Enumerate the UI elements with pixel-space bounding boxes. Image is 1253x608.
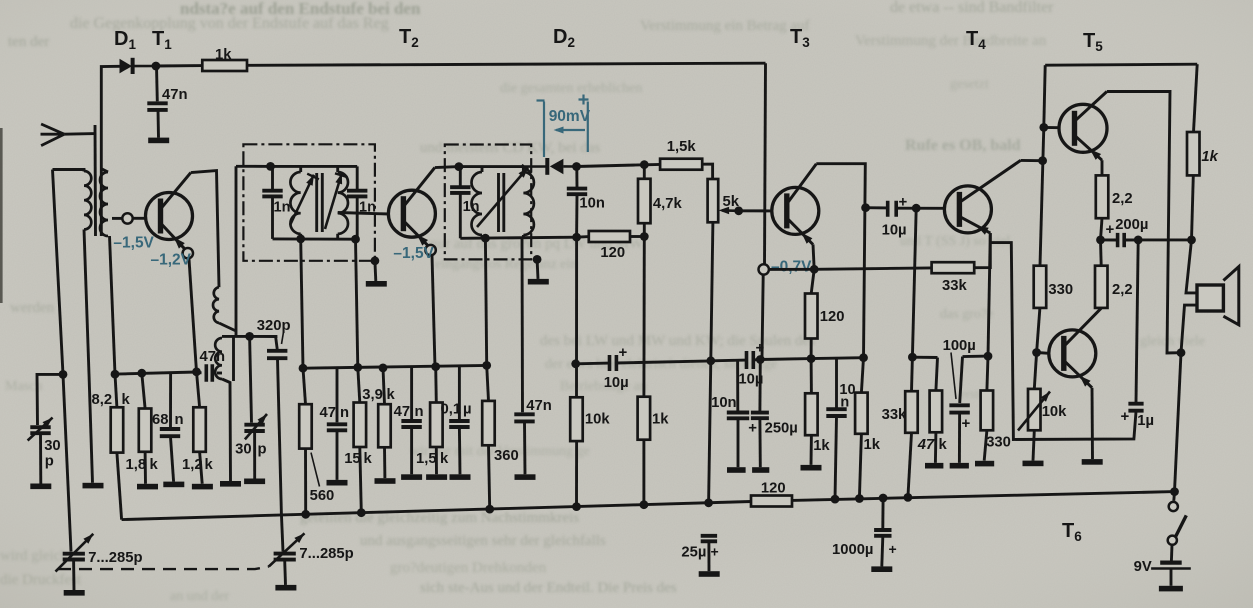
svg-text:k: k: [122, 392, 131, 408]
inductor oscillator secondary: [215, 338, 222, 379]
svg-text:gro?deutigen Drehkonden: gro?deutigen Drehkonden: [390, 560, 547, 576]
svg-text:n: n: [340, 405, 349, 421]
svg-text:n: n: [840, 395, 849, 411]
wire box1 top rail: [271, 165, 358, 168]
svg-text:das gro?e: das gro?e: [940, 307, 993, 322]
capacitor 10u coupling-2: [747, 351, 754, 369]
resistor 4.7k: [638, 179, 651, 223]
svg-text:25µ: 25µ: [681, 545, 706, 561]
wire IF2 primary bottom: [481, 235, 484, 238]
node speaker/1k: [1187, 236, 1196, 245]
svg-text:8,2: 8,2: [92, 392, 113, 408]
resistor 1.2k: [193, 407, 206, 452]
wire 120 T3 lead: [811, 269, 814, 293]
node box2 input: [455, 162, 464, 171]
svg-text:2,2: 2,2: [1112, 191, 1133, 207]
node speaker bottom: [1177, 348, 1186, 357]
label 320p: [257, 318, 291, 334]
svg-text:30: 30: [44, 438, 60, 454]
wire 47n-c branch: [410, 368, 413, 420]
node 5k wiper: [734, 206, 743, 215]
wire 15k lead: [358, 367, 360, 402]
svg-text:wird gleich: wird gleich: [0, 548, 68, 564]
label 47n det: [526, 398, 552, 414]
wire 8.2k to bottom rail corner: [117, 453, 122, 520]
svg-text:gleich viele: gleich viele: [1140, 334, 1205, 349]
node T3 emitter: [810, 265, 819, 274]
wire bias node row: [115, 372, 197, 374]
wire antenna to rod: [64, 132, 95, 135]
label 560: [310, 488, 335, 504]
wire 33k to T4 emitter: [974, 233, 990, 268]
svg-text:1,5k: 1,5k: [667, 139, 697, 155]
svg-text:k: k: [150, 457, 159, 473]
wire 4.7k bottom lead: [643, 223, 646, 236]
label 100u: [943, 338, 976, 354]
wire 10k pot lead: [1034, 353, 1036, 389]
wire 47n-d to ground: [523, 422, 526, 474]
label 30 (osc): [235, 442, 251, 458]
inductor antenna primary: [84, 171, 91, 230]
capacitor trimmer 30p antenna: [30, 427, 50, 433]
wire 10n-1 branch: [736, 360, 739, 411]
node T5 base: [1039, 123, 1048, 132]
node T1 emitter bias: [192, 367, 201, 376]
wire 320p down to tuning cap: [278, 359, 284, 552]
wire 1.5k lead: [434, 367, 437, 403]
ground 47k: [925, 463, 943, 469]
node 320p/30p: [245, 332, 254, 341]
label u (0.1u): [463, 402, 472, 418]
potentiometer 10k body: [1028, 389, 1041, 430]
label T6: [1062, 520, 1082, 544]
wire T4coll to 330-2: [1040, 127, 1044, 265]
resistor 1k T3: [805, 393, 818, 435]
label 120 T3: [820, 309, 845, 325]
capacitor 1u: [1128, 404, 1143, 411]
node 560 top: [299, 364, 308, 373]
wire 30p branch: [37, 374, 63, 425]
transistor T3: [772, 164, 819, 245]
capacitor 1n b: [347, 191, 367, 197]
label -0,7V: [771, 259, 812, 276]
svg-text:320p: 320p: [257, 318, 291, 334]
svg-text:1k: 1k: [1201, 149, 1218, 165]
node T4 base/33k: [912, 204, 921, 213]
svg-text:+: +: [889, 541, 897, 557]
label n b: [415, 404, 424, 420]
label 47n (osc): [200, 349, 226, 365]
svg-text:47: 47: [394, 404, 410, 420]
junction switch/rail: [1170, 487, 1179, 496]
page edge artifact: [0, 128, 3, 303]
arrow tuning cap 2: [269, 533, 305, 566]
svg-text:330: 330: [986, 435, 1011, 451]
svg-text:120: 120: [600, 245, 625, 261]
wire 30p to ground: [39, 435, 42, 484]
wire 47n osc left: [197, 371, 202, 374]
ground 25u: [699, 571, 720, 577]
ground 1000u: [871, 566, 892, 572]
label k (47k): [939, 437, 948, 453]
plus 10u-1: [619, 344, 628, 361]
svg-text:330: 330: [1048, 282, 1073, 298]
wire 100u link: [963, 355, 989, 358]
wire osc primary bottom hook: [219, 323, 236, 331]
slug arrow IF1 b: [325, 173, 347, 229]
bottom supply rail right: [792, 492, 1175, 501]
svg-text:90mV: 90mV: [549, 108, 591, 125]
svg-text:+: +: [1106, 221, 1115, 238]
ground 10k pot: [1023, 461, 1044, 467]
wire 10n-afc branch: [835, 358, 838, 408]
label 47 b: [394, 404, 410, 420]
label 1k audio: [652, 412, 669, 428]
svg-text:3,9: 3,9: [362, 387, 383, 403]
resistor 2.2 upper: [1096, 175, 1109, 218]
capacitor trimmer 30p osc: [244, 425, 264, 431]
junction IF1 tank left: [296, 235, 305, 244]
svg-text:1k: 1k: [864, 437, 881, 453]
wire AF row c: [711, 359, 747, 363]
junction 360/rail: [485, 505, 494, 514]
wire 2.2 lower top: [1099, 240, 1103, 266]
label 15: [344, 451, 360, 467]
ground 250u: [752, 467, 769, 473]
svg-text:de etwa -- sind Bandfilter: de etwa -- sind Bandfilter: [890, 0, 1054, 16]
capacitor 47n bias-b: [401, 421, 421, 427]
ground 1.8k: [137, 484, 158, 490]
ground 0.1u: [450, 474, 471, 480]
antenna: [41, 124, 65, 146]
wire T1 emitter down: [189, 259, 197, 372]
svg-text:4,7k: 4,7k: [653, 196, 683, 212]
wire 10k to rail: [575, 441, 578, 507]
wire 47n osc right: [217, 372, 222, 375]
plus 200u: [1106, 221, 1115, 238]
junction box1 shield ground: [371, 256, 380, 265]
wire osc secondary bottom: [222, 379, 231, 481]
wire 33k2 column: [912, 208, 916, 357]
label k (3.9k): [387, 387, 396, 403]
ground tuning cap 1: [64, 590, 85, 596]
svg-text:0,1: 0,1: [441, 402, 462, 418]
node 33k2/47k: [908, 353, 917, 362]
label -1,2V (T1): [151, 252, 192, 269]
wire 1.2k to ground: [200, 452, 203, 484]
label n af: [840, 395, 849, 411]
resistor 360: [482, 401, 495, 445]
wire 1.5k to ground: [435, 447, 438, 474]
wire 33k2 lead: [910, 357, 914, 391]
wire 68n branch: [169, 374, 172, 428]
wire 250u to ground: [758, 419, 761, 467]
node 1.5k top: [431, 362, 440, 371]
svg-text:360: 360: [494, 448, 519, 464]
resistor 120 T3: [805, 294, 818, 339]
wire 10n-1 to ground: [737, 419, 740, 467]
svg-text:und meistens CD KW, bei das: und meistens CD KW, bei das: [420, 140, 600, 156]
node 120/1k: [807, 354, 816, 363]
label 360: [494, 448, 519, 464]
label 2,2 lower: [1112, 282, 1133, 298]
wire 330-1 to ground: [984, 430, 987, 460]
junction D1/1k/47n: [152, 62, 161, 71]
ground T6 emitter: [1082, 459, 1103, 465]
wire 1k audio column: [642, 237, 645, 397]
resistor 1k AGC: [202, 60, 247, 71]
wire 33k2/47k link: [912, 356, 937, 359]
trimmer arrow 30p osc: [245, 414, 267, 439]
node T4 emitter low: [984, 352, 993, 361]
svg-text:1,8: 1,8: [126, 457, 147, 473]
wire 10u3 right to T4: [896, 207, 944, 210]
wire T5 base: [1044, 126, 1060, 129]
label 10u-3: [882, 223, 907, 239]
svg-text:47: 47: [320, 405, 336, 421]
wire 120 to 4.7k node: [630, 235, 644, 238]
wire tank2 to 360 node: [485, 238, 486, 365]
ground 47n det: [515, 474, 536, 480]
wire tuned frame left (slanted): [53, 170, 72, 552]
wire IF1 secondary top: [336, 166, 339, 172]
svg-text:47n: 47n: [526, 398, 552, 414]
svg-text:10µ: 10µ: [882, 223, 907, 239]
plus 1000u: [889, 541, 897, 557]
wire 1n-a bottom: [271, 198, 274, 239]
resistor 2.2 lower: [1095, 266, 1108, 308]
plus 1u: [1121, 408, 1130, 425]
wire 8.2k leads: [115, 374, 117, 407]
wire base circle to T1: [133, 217, 146, 220]
svg-text:+: +: [711, 544, 719, 560]
wire 47n-d branch: [521, 238, 524, 412]
svg-text:an und der: an und der: [170, 589, 229, 604]
label 33k bias: [882, 407, 907, 423]
wire box2 shield to ground: [536, 259, 540, 279]
pointer 560: [311, 453, 320, 487]
slug arrow IF2: [477, 165, 532, 227]
junction 1k2/rail: [855, 494, 864, 503]
label 10n ripple: [711, 395, 737, 411]
wire secondary tap to base circle: [112, 217, 122, 220]
svg-text:68: 68: [152, 412, 168, 428]
label 8,2: [92, 392, 113, 408]
label 1n a: [274, 200, 291, 216]
label 330 emitter: [986, 435, 1011, 451]
svg-text:47n: 47n: [162, 87, 188, 103]
svg-text:1k: 1k: [215, 47, 232, 63]
svg-text:n: n: [415, 404, 424, 420]
wire 47k lead: [936, 358, 938, 391]
wire 1k load top: [1194, 64, 1198, 132]
label k (8.2k): [122, 392, 131, 408]
wire speaker bottom lead: [1181, 305, 1197, 353]
wire 320p lead: [276, 337, 278, 350]
wire 1k2 to rail: [859, 434, 861, 499]
wire AGC rail down: [765, 63, 766, 264]
svg-text:k: k: [939, 437, 948, 453]
wire emitter row to 33k: [814, 268, 931, 269]
capacitor 10n det: [567, 189, 587, 195]
wire 1k load bottom: [1192, 175, 1194, 240]
svg-text:10k: 10k: [1042, 404, 1067, 420]
svg-text:1µ: 1µ: [1137, 413, 1154, 429]
svg-text:die Druckfest: die Druckfest: [0, 572, 82, 588]
node T6 base: [1032, 348, 1041, 357]
wire 330-2 to T6 base: [1037, 308, 1040, 353]
resistor 120 supply: [751, 496, 792, 507]
resistor 8.2k: [111, 407, 124, 452]
wire 15k to rail: [360, 447, 362, 513]
wiper arrow 5k: [719, 207, 739, 215]
svg-text:10n: 10n: [711, 395, 737, 411]
junction IF2 tank tap: [481, 234, 490, 243]
label 10u-2: [738, 372, 763, 388]
wire IF2 secondary top: [522, 167, 525, 172]
junction 1k/rail: [640, 500, 649, 509]
svg-text:p: p: [258, 442, 267, 458]
svg-text:1000µ: 1000µ: [832, 542, 873, 558]
svg-text:–1,2V: –1,2V: [151, 252, 192, 269]
wire det node to 1.5k: [577, 164, 661, 166]
wire 330-1 lead: [987, 356, 988, 390]
label 10u-1: [604, 375, 629, 391]
wire 1n-a leads: [271, 166, 274, 189]
node 15k top: [353, 363, 362, 372]
wire 33k2 to rail: [908, 433, 912, 498]
wire IF2 primary top: [481, 167, 484, 172]
label 1k coll: [864, 437, 881, 453]
inductor IF2 secondary: [523, 172, 534, 235]
node output upper: [1096, 236, 1105, 245]
wire 25u to ground: [707, 542, 710, 571]
svg-text:–0,7V: –0,7V: [771, 259, 812, 276]
diode D2: [523, 158, 576, 175]
svg-text:200µ: 200µ: [1115, 217, 1148, 233]
plus 10u-3: [899, 194, 908, 211]
node 5k/10u2: [706, 356, 715, 365]
resistor 10k volume: [570, 397, 583, 441]
resistor 3.9k: [378, 404, 391, 447]
capacitor 1n c: [450, 187, 470, 193]
svg-text:Verstimmung ein Betrag auf: Verstimmung ein Betrag auf: [640, 18, 810, 34]
wire AGC below testpoint: [760, 275, 763, 360]
wire 3.9k lead: [383, 368, 385, 404]
wire 47n-b to ground: [336, 432, 339, 480]
wire 1n-c leads: [459, 167, 462, 186]
capacitor 47n at D1: [147, 103, 167, 110]
svg-text:560: 560: [310, 488, 335, 504]
ground 1.2k: [192, 484, 213, 490]
wire IF1 primary bottom: [299, 234, 302, 239]
svg-text:ten der: ten der: [8, 34, 49, 50]
wire 5k bottom: [711, 222, 713, 360]
capacitor 47n oscillator: [206, 364, 212, 381]
wire antenna lead-in to D1 branch: [101, 66, 119, 236]
wire 10k pot to ground: [1033, 430, 1034, 460]
switch contact lower: [1168, 536, 1177, 545]
wire IF1 secondary bottom: [336, 234, 339, 239]
wire IF2 secondary bottom: [522, 235, 525, 238]
wire 3.9k to ground: [383, 447, 386, 478]
wire 10u3 left: [866, 206, 888, 209]
wire 4.7k top lead: [643, 165, 646, 179]
label 120 det: [600, 245, 625, 261]
core IF2 right: [502, 173, 505, 232]
svg-text:7...285p: 7...285p: [299, 546, 353, 562]
svg-text:1,2: 1,2: [182, 457, 203, 473]
svg-text:+: +: [1121, 408, 1130, 425]
label D2: [553, 26, 575, 50]
pointer 100u: [951, 353, 956, 400]
diode D1: [120, 58, 156, 74]
svg-text:33k: 33k: [882, 407, 907, 423]
wire AF row: [576, 362, 610, 366]
ground 30p osc: [244, 479, 265, 485]
node 4.7k top: [640, 160, 649, 169]
switch contact upper: [1169, 502, 1178, 511]
label 47 a: [320, 405, 336, 421]
wire 1n-b leads: [356, 166, 359, 189]
wire primary bottom to ground: [84, 230, 93, 483]
svg-text:+: +: [962, 415, 971, 432]
wire T2 collector to box2: [435, 167, 459, 168]
inductor IF2 primary: [472, 172, 483, 235]
ferrite rod bar: [94, 125, 97, 236]
wire 100u to ground: [958, 414, 961, 463]
label k (1.8k): [150, 457, 159, 473]
wire 47n to ground: [157, 110, 160, 138]
label 1k T3: [813, 438, 830, 454]
svg-text:werden: werden: [10, 300, 55, 316]
label 30: [44, 438, 60, 454]
label 33k fb: [942, 278, 967, 294]
label 330 driver: [1048, 282, 1073, 298]
svg-text:10n: 10n: [579, 196, 605, 212]
label T4: [966, 28, 986, 52]
svg-text:47n: 47n: [200, 349, 226, 365]
transistor T5: [1059, 92, 1107, 161]
node secondary/8.2k: [111, 370, 120, 379]
slug arrow IF1 a: [290, 174, 319, 225]
arrow tuning cap 1: [56, 534, 94, 572]
resistor 1k load: [1187, 132, 1200, 175]
wire 5k wiper to T3 base: [739, 209, 772, 212]
plus 250u: [748, 419, 757, 436]
battery 9V: [1151, 563, 1191, 569]
wire output top rail: [1045, 64, 1197, 65]
capacitor 10n ripple: [727, 413, 749, 419]
label 10 af: [839, 382, 855, 398]
wire 30p osc to ground: [253, 432, 256, 479]
wire T3 collector top: [816, 164, 865, 358]
wire into filter box1: [236, 165, 271, 168]
ground 330 emitter: [975, 461, 994, 467]
label k (1.5k): [440, 451, 449, 467]
label 7...285p: [88, 550, 142, 566]
resistor 15k: [354, 403, 367, 448]
ground 68n: [163, 482, 184, 488]
node T3 collector/10u: [861, 203, 870, 212]
resistor 1.5k emitter: [430, 403, 443, 448]
svg-text:k: k: [440, 451, 449, 467]
svg-text:Rufe es OB, bald: Rufe es OB, bald: [905, 137, 1021, 154]
svg-text:die gesamten erheblichen: die gesamten erheblichen: [500, 81, 642, 96]
label 200u: [1115, 217, 1148, 233]
label 1000u: [832, 542, 873, 558]
wire IF1 primary top: [299, 166, 302, 172]
